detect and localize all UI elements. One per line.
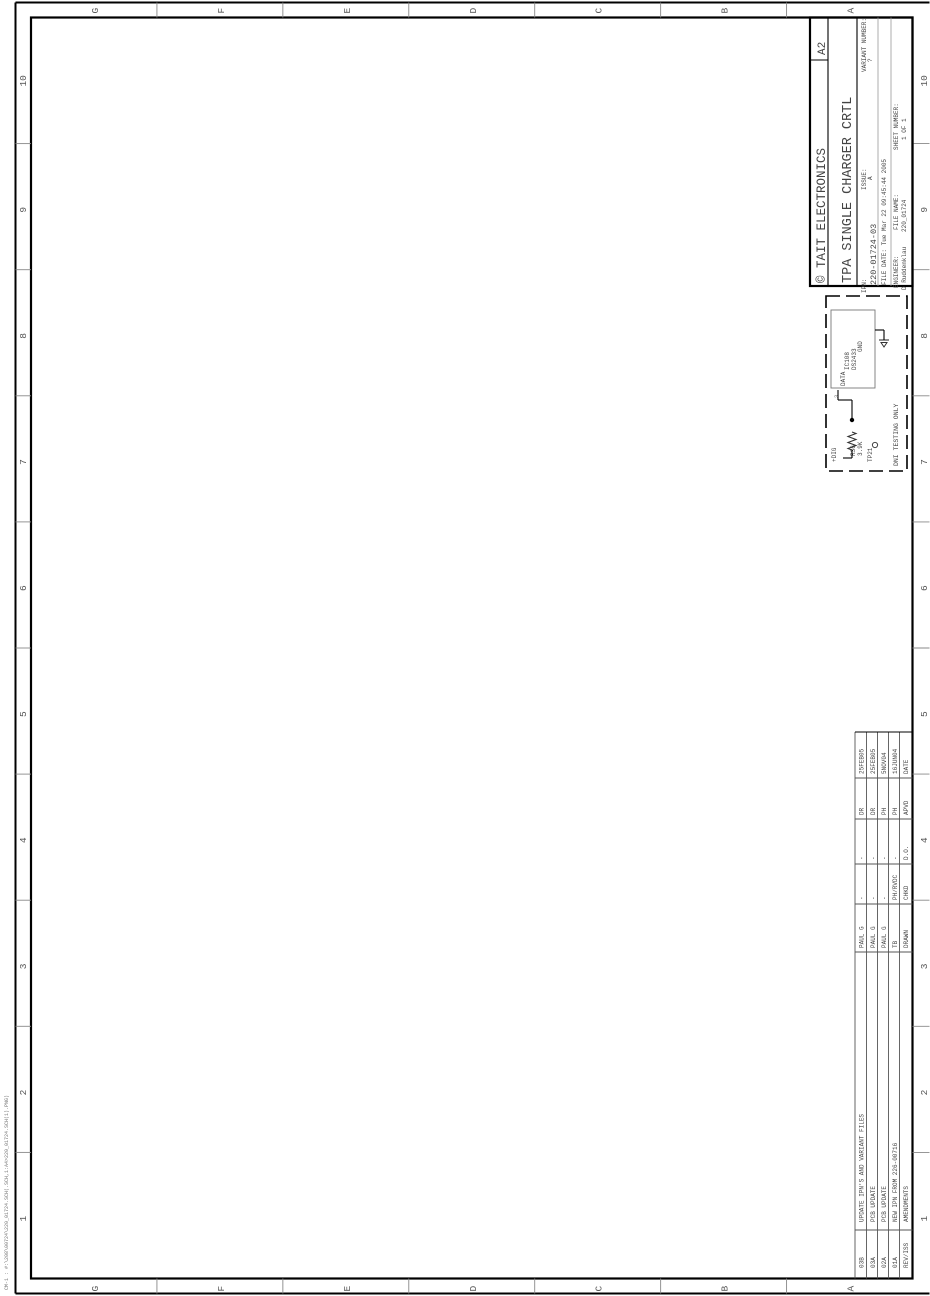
svg-text:-: - [870, 896, 877, 900]
svg-text:1: 1 [18, 1215, 29, 1221]
svg-text:A: A [846, 1286, 857, 1292]
svg-text:-: - [881, 896, 888, 900]
svg-text:8: 8 [919, 333, 930, 339]
svg-text:APVD: APVD [903, 800, 910, 815]
svg-text:B: B [720, 1286, 731, 1292]
svg-text:PH/RVDC: PH/RVDC [892, 874, 899, 900]
svg-text:-: - [859, 856, 866, 860]
svg-text:25FEB05: 25FEB05 [870, 748, 877, 774]
svg-text:6: 6 [919, 585, 930, 591]
svg-text:F: F [216, 1286, 227, 1292]
svg-text:FILE DATE: Tue Mar 22 09:45:44: FILE DATE: Tue Mar 22 09:45:44 2005 [881, 159, 888, 285]
svg-text:IPN:: IPN: [861, 279, 868, 293]
svg-text:GND: GND [857, 341, 864, 352]
svg-text:2: 2 [919, 1089, 930, 1095]
svg-text:5: 5 [18, 711, 29, 717]
svg-text:6: 6 [18, 585, 29, 591]
svg-text:DR: DR [870, 807, 877, 815]
svg-text:3.9K: 3.9K [857, 441, 864, 456]
svg-text:A: A [867, 176, 874, 180]
svg-text:SHEET NUMBER:: SHEET NUMBER: [893, 103, 900, 150]
svg-text:DRAWN: DRAWN [903, 930, 910, 948]
svg-text:PCB UPDATE: PCB UPDATE [881, 1186, 888, 1222]
svg-text:TB: TB [892, 940, 899, 948]
svg-text:TP21: TP21 [867, 447, 874, 462]
svg-text:5NOV04: 5NOV04 [881, 752, 888, 774]
svg-text:REV/ISS: REV/ISS [903, 1242, 910, 1268]
svg-text:B: B [720, 8, 731, 14]
svg-text:AMENDMENTS: AMENDMENTS [903, 1186, 910, 1222]
svg-text:-: - [870, 856, 877, 860]
svg-text:4: 4 [18, 837, 29, 843]
svg-text:03A: 03A [870, 1257, 877, 1268]
svg-text:-: - [892, 856, 899, 860]
svg-text:PH: PH [881, 807, 888, 815]
svg-text:C: C [594, 1286, 605, 1292]
svg-text:1 OF 1: 1 OF 1 [901, 118, 908, 140]
svg-text:IC108: IC108 [844, 352, 851, 370]
svg-text:PH: PH [892, 807, 899, 815]
svg-text:PAUL G: PAUL G [881, 926, 888, 948]
svg-text:220_01724: 220_01724 [901, 199, 908, 232]
svg-text:3: 3 [833, 395, 840, 398]
svg-text:16JUN04: 16JUN04 [892, 748, 899, 774]
svg-text:CM-1 : #:\208\00724\220_01724.: CM-1 : #:\208\00724\220_01724.SCH(.SCH,1… [4, 1095, 10, 1290]
svg-text:C: C [594, 8, 605, 14]
svg-text:2: 2 [18, 1089, 29, 1095]
svg-text:VARIANT NUMBER:: VARIANT NUMBER: [861, 18, 868, 72]
svg-text:?: ? [867, 58, 874, 62]
svg-text:PAUL G: PAUL G [870, 926, 877, 948]
svg-text:D.O.: D.O. [903, 846, 910, 860]
svg-text:DATE: DATE [903, 759, 910, 774]
svg-text:02A: 02A [881, 1257, 888, 1268]
svg-text:220-01724-03: 220-01724-03 [869, 224, 879, 285]
svg-text:10: 10 [18, 75, 29, 87]
svg-text:G: G [90, 8, 101, 14]
svg-text:D: D [468, 8, 479, 14]
svg-text:A2: A2 [817, 42, 829, 55]
svg-text:25FEB05: 25FEB05 [859, 748, 866, 774]
svg-text:01A: 01A [892, 1257, 899, 1268]
svg-text:DNI TESTING ONLY: DNI TESTING ONLY [893, 403, 900, 466]
svg-text:E: E [342, 8, 353, 14]
svg-text:7: 7 [919, 459, 930, 465]
svg-text:3: 3 [18, 963, 29, 969]
svg-text:PCB UPDATE: PCB UPDATE [870, 1186, 877, 1222]
svg-text:FILE NAME:: FILE NAME: [893, 194, 900, 230]
svg-text:PAUL G: PAUL G [859, 926, 866, 948]
svg-text:7: 7 [18, 459, 29, 465]
svg-text:D Ruddenklau: D Ruddenklau [901, 246, 908, 290]
svg-text:03B: 03B [859, 1257, 866, 1268]
svg-text:-: - [859, 896, 866, 900]
svg-text:4: 4 [919, 837, 930, 843]
svg-text:1: 1 [919, 1215, 930, 1221]
svg-text:3: 3 [919, 963, 930, 969]
svg-text:E: E [342, 1286, 353, 1292]
svg-text:A: A [846, 8, 857, 14]
svg-text:© TAIT ELECTRONICS: © TAIT ELECTRONICS [815, 148, 829, 283]
svg-text:5: 5 [919, 711, 930, 717]
svg-text:G: G [90, 1286, 101, 1292]
svg-text:NEW IPN FROM 226-00716: NEW IPN FROM 226-00716 [892, 1142, 899, 1222]
svg-text:DR: DR [859, 807, 866, 815]
svg-text:8: 8 [18, 333, 29, 339]
svg-text:UPDATE IPN'S AND VARIANT FILES: UPDATE IPN'S AND VARIANT FILES [859, 1114, 866, 1222]
svg-text:F: F [216, 8, 227, 14]
svg-text:TPA SINGLE CHARGER CRTL: TPA SINGLE CHARGER CRTL [841, 97, 856, 283]
svg-text:-: - [881, 856, 888, 860]
svg-text:D: D [468, 1286, 479, 1292]
svg-text:10: 10 [919, 75, 930, 87]
svg-text:9: 9 [919, 207, 930, 213]
svg-text:9: 9 [18, 207, 29, 213]
svg-text:+DIG: +DIG [831, 447, 838, 462]
svg-text:ENGINEER:: ENGINEER: [893, 256, 900, 288]
svg-text:CHKD: CHKD [903, 885, 910, 900]
svg-text:DATA: DATA [840, 371, 847, 386]
